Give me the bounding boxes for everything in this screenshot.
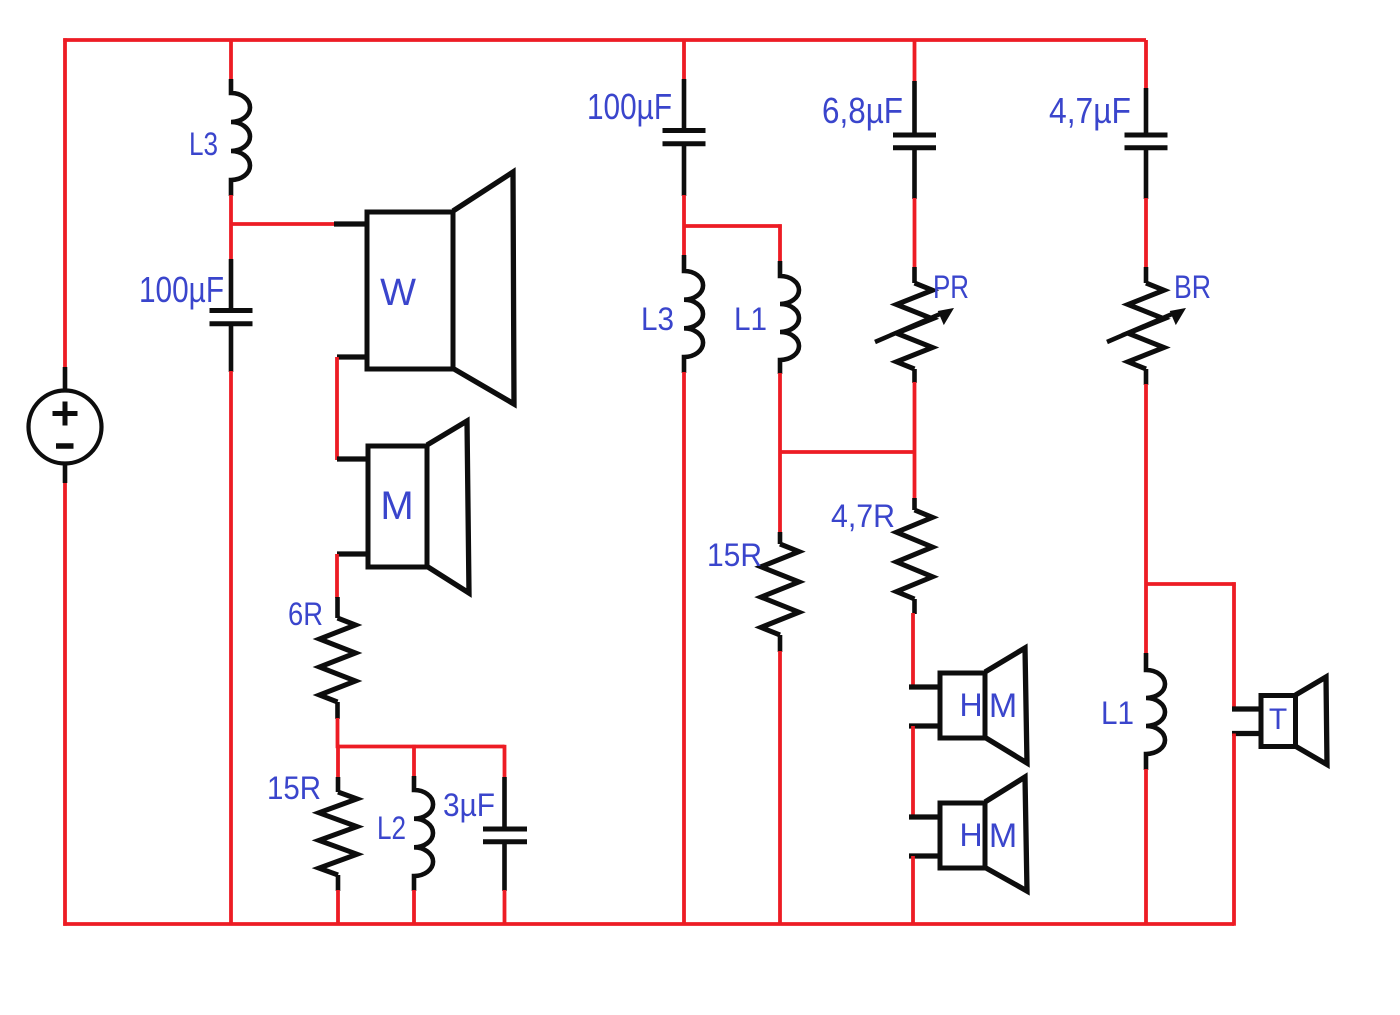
wire tweeter branch lower <box>1232 734 1236 926</box>
wire top bus <box>63 38 1146 42</box>
svg-text:6R: 6R <box>288 596 323 632</box>
speaker HM1 <box>909 648 1027 763</box>
wire W to M <box>335 357 339 460</box>
svg-text:15R: 15R <box>267 770 321 806</box>
speaker W <box>334 172 514 404</box>
potentiometer BR <box>1107 267 1185 385</box>
capacitor 100uF (middle branch) <box>663 79 706 196</box>
svg-text:L2: L2 <box>377 810 406 846</box>
wire mid horizontal link <box>780 450 915 454</box>
capacitor 3uF <box>483 777 527 891</box>
wire 6R to junction <box>336 718 340 748</box>
resistor 15R (middle) <box>761 532 799 652</box>
svg-text:L3: L3 <box>641 301 674 337</box>
wire jog to tweeter branch <box>1146 582 1236 586</box>
wire 3uF top <box>503 745 507 778</box>
wire 15R left bottom <box>336 890 340 924</box>
wire branch4 top stub <box>1144 40 1148 89</box>
wire PR to 4,7R <box>913 382 917 499</box>
wire branch1 mid <box>229 195 233 260</box>
wire jog to woofer <box>231 222 335 226</box>
inductor L1 (middle) <box>780 261 799 374</box>
wire parallel-group horizontal <box>338 745 505 749</box>
wire BR to L1 right <box>1144 384 1148 654</box>
potentiometer PR <box>875 267 953 383</box>
voltage source V1 <box>29 367 102 483</box>
svg-text:H: H <box>959 687 982 723</box>
wire branch1 bottom <box>229 371 233 924</box>
wire branch2 bottom <box>682 372 686 924</box>
capacitor 4.7uF <box>1125 88 1168 199</box>
wire M to 6R <box>335 554 339 598</box>
inductor L3 (middle) <box>684 255 703 373</box>
svg-text:BR: BR <box>1174 269 1211 305</box>
svg-text:PR: PR <box>933 269 969 305</box>
capacitor 6.8uF <box>893 81 936 199</box>
speaker HM2 <box>909 777 1027 891</box>
svg-text:T: T <box>1269 703 1287 736</box>
wire L1 mid to 15R mid <box>778 373 782 533</box>
wire 4.7uF to BR <box>1144 198 1148 268</box>
inductor L1 (right) <box>1146 653 1165 770</box>
wire 15R mid bottom <box>778 651 782 924</box>
svg-text:M: M <box>989 817 1017 855</box>
inductor L2 <box>414 776 433 891</box>
svg-text:L1: L1 <box>734 301 767 337</box>
svg-text:L3: L3 <box>189 126 218 162</box>
wire branch2 top stub <box>682 40 686 80</box>
svg-text:3µF: 3µF <box>443 787 495 823</box>
wire bottom bus <box>63 922 1234 926</box>
svg-text:100µF: 100µF <box>139 269 224 310</box>
svg-text:4,7R: 4,7R <box>831 498 895 534</box>
wire HM2 bottom <box>911 856 915 924</box>
svg-text:M: M <box>989 687 1017 725</box>
wire 3uF bottom <box>503 890 507 924</box>
wire HM1 to HM2 <box>911 726 915 817</box>
wire 4,7R to HM1 <box>911 613 915 687</box>
svg-text:L1: L1 <box>1101 695 1134 731</box>
wire L1 mid top <box>778 224 782 262</box>
wire branch1 top stub <box>229 40 233 80</box>
svg-text:100µF: 100µF <box>587 86 672 127</box>
wire L2 top <box>412 745 416 777</box>
svg-text:W: W <box>380 272 416 314</box>
wire jog to L1 mid <box>684 224 782 228</box>
wire branch3 top stub <box>913 40 917 82</box>
resistor 15R (left) <box>319 777 357 891</box>
resistor 6R <box>320 597 356 719</box>
inductor L3 (left branch) <box>231 79 250 196</box>
svg-text:H: H <box>959 817 982 853</box>
svg-text:15R: 15R <box>707 537 762 573</box>
wire left edge upper <box>63 38 67 369</box>
svg-text:6,8µF: 6,8µF <box>822 90 903 131</box>
speaker M <box>337 421 469 593</box>
wire L2 bottom <box>412 890 416 924</box>
wire 6.8uF to PR <box>913 198 917 268</box>
speaker T <box>1232 677 1327 765</box>
wire 15R left top <box>336 745 340 778</box>
wire tweeter branch upper <box>1232 582 1236 709</box>
svg-text:4,7µF: 4,7µF <box>1049 90 1131 131</box>
svg-text:M: M <box>380 484 413 528</box>
capacitor 100uF (left branch) <box>210 259 253 372</box>
resistor 4,7R <box>897 498 933 614</box>
wire left edge lower <box>63 481 67 926</box>
wire L1 right bottom <box>1144 769 1148 924</box>
wire branch2 below cap <box>682 195 686 257</box>
